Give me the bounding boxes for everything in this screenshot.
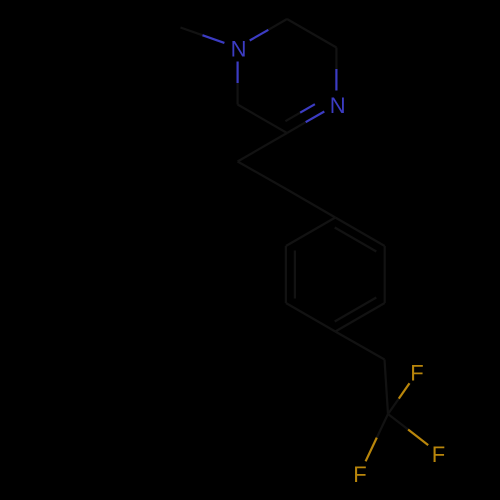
- svg-text:F: F: [410, 361, 423, 386]
- bond P5-P6 phenyl: [384, 246, 386, 303]
- bond P4-CH2 benzylic: [335, 332, 384, 360]
- bond CH2-CH2 chain: [238, 162, 287, 190]
- bond C2-C3 (ring): [287, 19, 336, 48]
- double bond P2=P3 phenyl inner: [294, 251, 296, 299]
- bond C5-C6 (ring): [238, 105, 287, 134]
- double bond N2=C5 main line: [287, 112, 324, 134]
- double bond P4=P5 phenyl main: [335, 303, 384, 332]
- bond N1-C2 (ring): [250, 19, 287, 41]
- double bond P6=P1 phenyl main: [335, 218, 384, 247]
- svg-text:N: N: [231, 36, 247, 61]
- bond CH2-CF3: [385, 360, 389, 415]
- double bond N2=C5 inner line: [285, 104, 315, 121]
- double bond P6=P1 phenyl inner: [335, 228, 377, 252]
- bond C-F1: [388, 383, 410, 414]
- bond P3-P4 phenyl: [286, 303, 335, 332]
- svg-text:F: F: [353, 462, 366, 487]
- bond CH2-phenyl: [287, 190, 335, 218]
- bond C-F2: [388, 414, 428, 445]
- bond N1-CH3 (N-methyl): [181, 28, 225, 43]
- bond C3-N2 (ring): [335, 48, 337, 91]
- bond P1-P2 phenyl: [286, 218, 335, 247]
- double bond P4=P5 phenyl inner: [335, 298, 377, 322]
- bond C-F3: [366, 414, 388, 461]
- bond C5-CH2 chain: [238, 133, 287, 162]
- bond C6-N1 (ring): [237, 62, 239, 105]
- double bond P2=P3 phenyl main: [285, 246, 287, 303]
- svg-text:F: F: [432, 442, 445, 467]
- svg-text:N: N: [330, 93, 346, 118]
